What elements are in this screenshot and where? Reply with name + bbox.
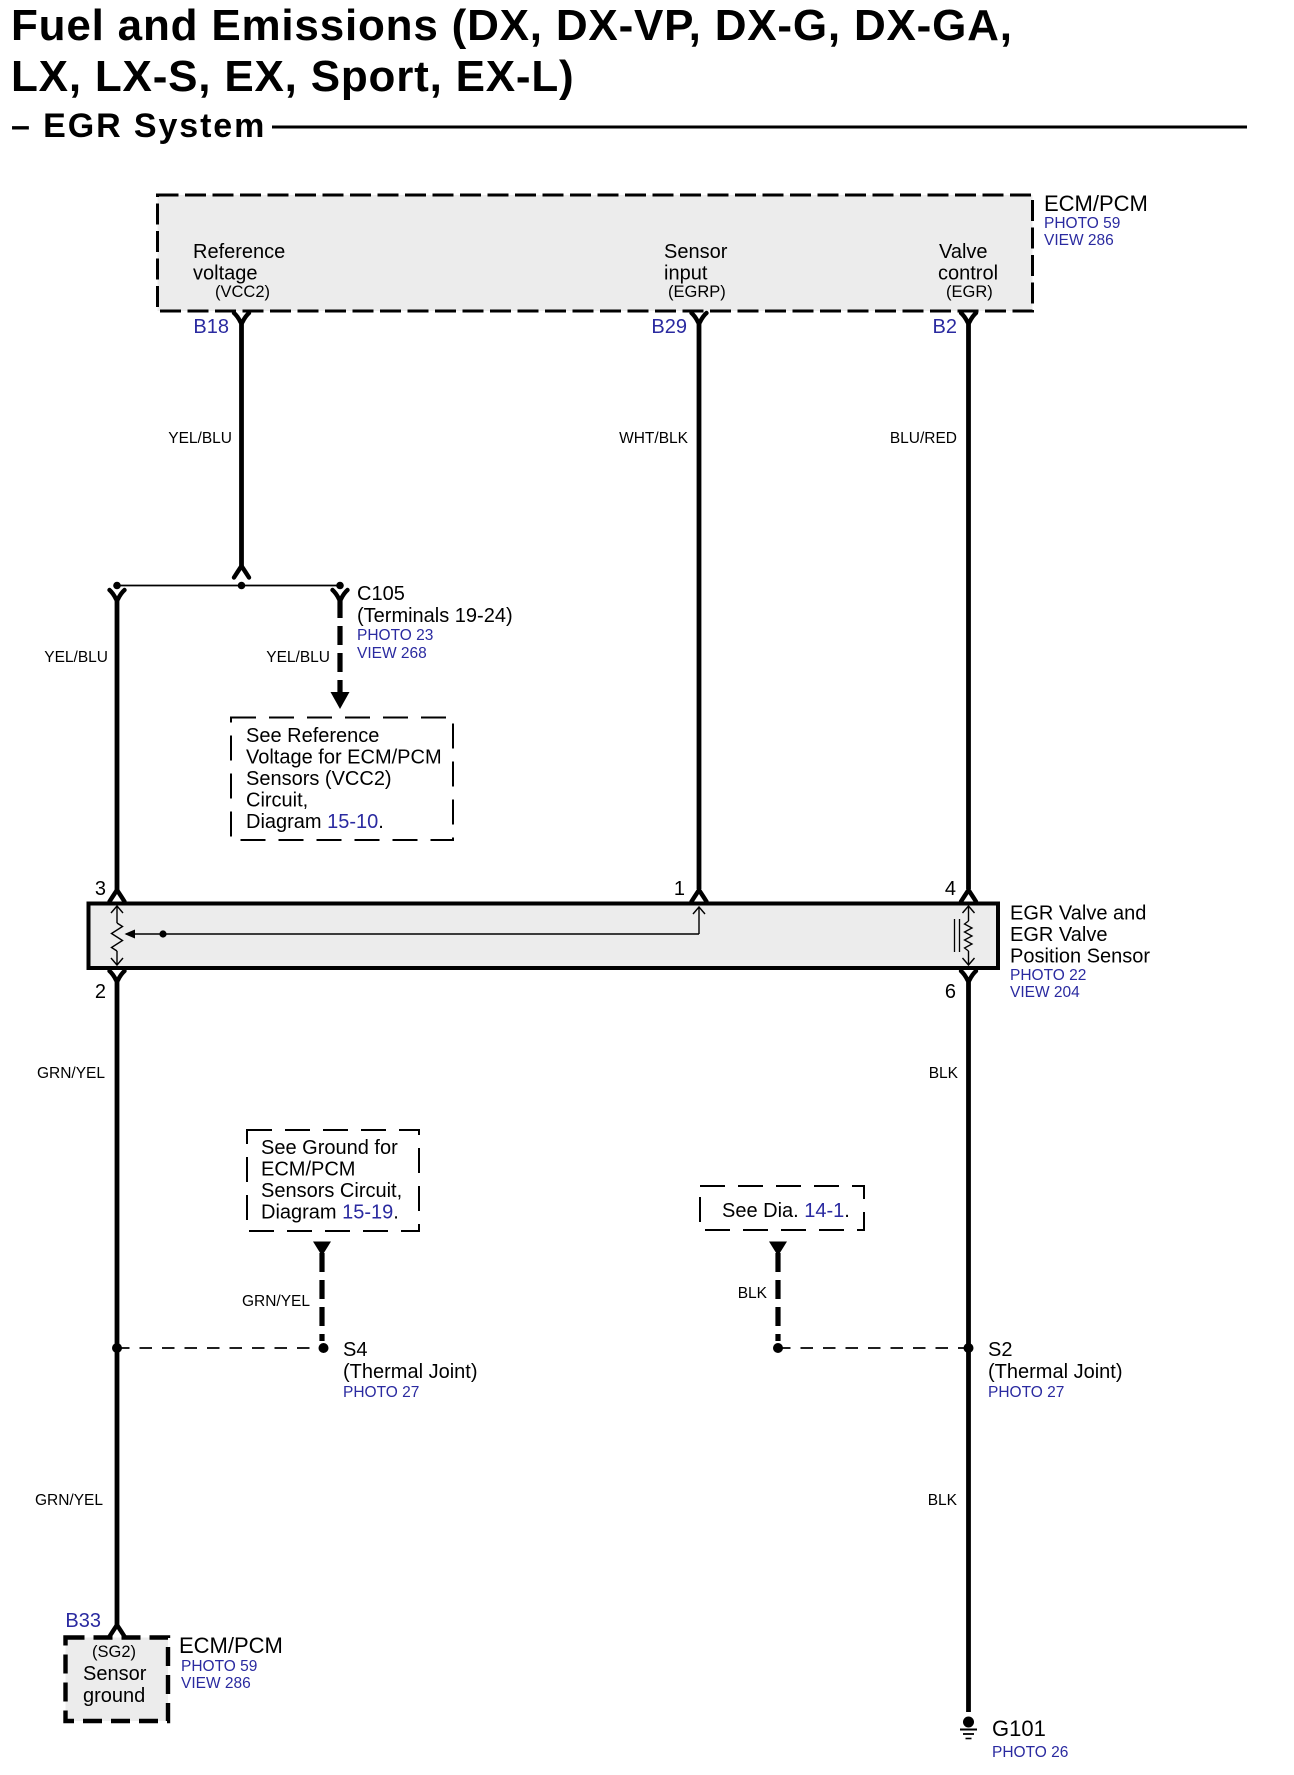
pin 3 connector [110,890,125,902]
arrowhead from ground note [313,1242,331,1257]
component label EGR Valve and EGR Valve Position Sensor [1010,903,1150,1002]
pin B18 connector [234,313,249,324]
svg-text:PHOTO 27: PHOTO 27 [988,1384,1064,1401]
pin B29 connector [692,313,707,324]
arrowhead to reference note [331,692,350,709]
connector C105 female branch [333,590,348,601]
ECM/PCM sensor ground box [66,1638,169,1722]
svg-text:See Dia. 14-1.: See Dia. 14-1. [722,1200,850,1222]
svg-text:(EGRP): (EGRP) [668,283,726,301]
svg-text:BLU/RED: BLU/RED [890,430,957,447]
svg-text:EGR Valve: EGR Valve [1010,924,1107,946]
svg-text:BLK: BLK [929,1065,959,1082]
svg-text:LX, LX-S, EX, Sport, EX-L): LX, LX-S, EX, Sport, EX-L) [11,52,575,101]
pin label Reference voltage (VCC2) [193,241,285,301]
solenoid coil element (valve control) [963,906,975,965]
wire B2 BLU/RED [966,321,971,889]
svg-text:6: 6 [945,981,956,1003]
pin 1 connector [692,890,707,902]
connector female left branch [110,590,125,601]
wire dashed BLK to S2 [775,1253,780,1341]
svg-text:Sensors Circuit,: Sensors Circuit, [261,1180,402,1202]
note box See Reference Voltage [231,718,453,841]
node dot S4 [319,1343,329,1353]
svg-text:PHOTO 26: PHOTO 26 [992,1744,1068,1761]
svg-text:YEL/BLU: YEL/BLU [266,649,330,666]
connector C105 male end of wire B18 [234,566,249,578]
coil core bars [955,919,960,952]
splice S2 dashed link [778,1347,971,1349]
wire pin6 BLK [966,979,971,1712]
svg-text:VIEW 204: VIEW 204 [1010,984,1080,1001]
svg-text:BLK: BLK [738,1285,768,1302]
svg-text:(Thermal Joint): (Thermal Joint) [988,1361,1122,1383]
svg-text:GRN/YEL: GRN/YEL [37,1065,105,1082]
node dot on main wire at S4 [112,1343,122,1353]
svg-text:Circuit,: Circuit, [246,790,308,812]
node dot below BLK stub [773,1343,783,1353]
label C105 (Terminals 19-24) [357,583,513,662]
svg-text:YEL/BLU: YEL/BLU [44,649,108,666]
svg-text:Diagram 15-19.: Diagram 15-19. [261,1202,399,1224]
potentiometer element (position sensor) [111,906,123,965]
pin label Sensor input (EGRP) [664,241,728,301]
wire B18 YEL/BLU [239,321,244,566]
svg-text:ECM/PCM: ECM/PCM [261,1159,355,1181]
svg-text:PHOTO 23: PHOTO 23 [357,627,433,644]
svg-text:Fuel and Emissions (DX, DX-VP,: Fuel and Emissions (DX, DX-VP, DX-G, DX-… [11,1,1013,50]
svg-text:See Reference: See Reference [246,725,379,747]
pin 4 connector [961,890,976,902]
svg-text:VIEW 268: VIEW 268 [357,645,427,662]
svg-text:(SG2): (SG2) [92,1643,136,1661]
svg-text:EGR Valve and: EGR Valve and [1010,903,1146,925]
wire C105 stub dashed YEL/BLU [337,599,342,694]
pin B2 connector [961,313,976,324]
title [11,1,1013,145]
wire B29 WHT/BLK [697,321,702,889]
svg-text:GRN/YEL: GRN/YEL [35,1492,103,1509]
svg-text:VIEW 286: VIEW 286 [181,1675,251,1692]
svg-text:ECM/PCM: ECM/PCM [1044,191,1148,216]
svg-text:Position Sensor: Position Sensor [1010,946,1150,968]
label S2 (Thermal Joint) [988,1339,1122,1401]
pin 6 connector [961,971,976,982]
svg-text:GRN/YEL: GRN/YEL [242,1293,310,1310]
pin label Valve control (EGR) [938,241,998,301]
svg-text:ground: ground [83,1685,145,1707]
svg-text:Diagram 15-10.: Diagram 15-10. [246,811,384,833]
label G101 [992,1716,1068,1761]
svg-text:C105: C105 [357,583,405,605]
svg-text:Sensor: Sensor [664,241,728,263]
svg-text:– EGR System: – EGR System [11,107,266,145]
svg-text:S4: S4 [343,1339,367,1361]
pin 2 connector [110,971,125,982]
svg-text:control: control [938,263,998,285]
svg-text:Sensor: Sensor [83,1663,147,1685]
wire dashed GRN/YEL to S4 [319,1253,324,1341]
ground G101 [960,1717,977,1739]
svg-text:VIEW 286: VIEW 286 [1044,232,1114,249]
svg-text:3: 3 [95,878,106,900]
svg-text:1: 1 [674,878,685,900]
svg-text:ECM/PCM: ECM/PCM [179,1633,283,1658]
svg-text:B2: B2 [933,316,957,338]
node dot S2 [964,1343,974,1353]
svg-text:PHOTO 27: PHOTO 27 [343,1384,419,1401]
svg-text:PHOTO 22: PHOTO 22 [1010,967,1086,984]
svg-text:YEL/BLU: YEL/BLU [168,430,232,447]
svg-text:B29: B29 [651,316,687,338]
svg-text:Reference: Reference [193,241,285,263]
svg-text:PHOTO 59: PHOTO 59 [1044,215,1120,232]
svg-text:input: input [664,263,708,285]
title rule [272,126,1247,129]
svg-text:(EGR): (EGR) [946,283,993,301]
svg-text:Valve: Valve [939,241,988,263]
wire pin2 GRN/YEL [115,979,120,1626]
label S4 (Thermal Joint) [343,1339,477,1401]
ECM/PCM top box [158,195,1033,311]
arrowhead from dia note [769,1242,787,1257]
svg-text:WHT/BLK: WHT/BLK [619,430,689,447]
pin B33 connector [110,1625,125,1637]
component label ECM/PCM bottom [179,1633,283,1692]
svg-text:B18: B18 [193,316,229,338]
svg-text:S2: S2 [988,1339,1012,1361]
note box See Ground for ECM/PCM [247,1130,419,1231]
svg-text:(Terminals 19-24): (Terminals 19-24) [357,605,513,627]
svg-text:G101: G101 [992,1716,1046,1741]
wire left branch YEL/BLU [115,599,120,891]
junction bus wire at C105 [117,585,340,587]
svg-text:BLK: BLK [928,1492,958,1509]
svg-text:(Thermal Joint): (Thermal Joint) [343,1361,477,1383]
svg-text:(VCC2): (VCC2) [215,283,270,301]
svg-text:4: 4 [945,878,956,900]
wiper junction dot [159,930,166,937]
svg-text:2: 2 [95,981,106,1003]
svg-text:PHOTO 59: PHOTO 59 [181,1658,257,1675]
EGR Valve box [89,904,999,969]
svg-text:Sensors (VCC2): Sensors (VCC2) [246,768,392,790]
svg-text:B33: B33 [65,1610,101,1632]
wiper arrow of potentiometer [125,907,706,939]
splice S4 dashed link [117,1347,324,1349]
note box See Dia. 14-1 [700,1186,864,1230]
svg-text:See Ground for: See Ground for [261,1137,398,1159]
component label ECM/PCM [1044,191,1148,249]
svg-text:voltage: voltage [193,263,258,285]
junction node dots [113,582,121,590]
svg-text:Voltage for ECM/PCM: Voltage for ECM/PCM [246,747,442,769]
